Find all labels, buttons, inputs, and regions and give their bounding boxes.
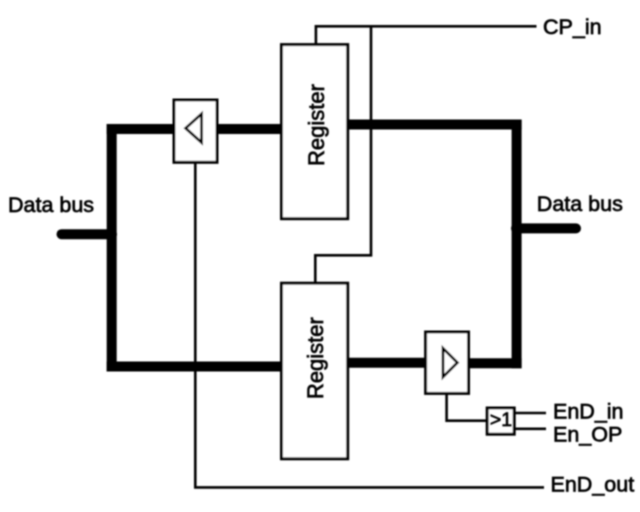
svg-text:En_OP: En_OP bbox=[553, 423, 622, 447]
wire: data bus left stub (thick) bbox=[62, 229, 113, 239]
OR gate U3 box bbox=[487, 408, 514, 434]
wire: data bus right stub (thick) bbox=[516, 223, 576, 233]
buffer G2 box (tri-state driver, output side) bbox=[426, 332, 469, 393]
wire: EnD_in input to OR gate bbox=[515, 412, 547, 415]
buffer G1 box (tri-state driver, input side) bbox=[174, 100, 217, 162]
wire: OR gate output to buffer G2 control bbox=[447, 394, 487, 421]
svg-text:Data bus: Data bus bbox=[537, 192, 623, 216]
wire: data bus bottom, bottom register to buffer G2 (thick) bbox=[346, 358, 428, 368]
wire: En_OP input to OR gate bbox=[515, 427, 547, 430]
svg-text:>1: >1 bbox=[490, 409, 512, 431]
svg-text:EnD_in: EnD_in bbox=[553, 399, 624, 423]
buffer G2 triangle (points right) bbox=[443, 348, 457, 377]
svg-text:CP_in: CP_in bbox=[543, 15, 602, 39]
svg-text:Register: Register bbox=[304, 84, 329, 166]
wire: CP_in to top register clock input bbox=[316, 26, 537, 45]
wire: data bus left vertical (thick) bbox=[107, 124, 117, 372]
svg-text:Register: Register bbox=[303, 317, 328, 399]
wire: data bus bottom, left segment (thick) bbox=[107, 362, 284, 372]
wire: data bus top, top register to right side (thick) bbox=[346, 120, 522, 130]
wire: CP_in branch to bottom register clock input bbox=[315, 25, 371, 283]
buffer G1 triangle (points left) bbox=[186, 114, 202, 143]
svg-text:Data bus: Data bus bbox=[8, 193, 94, 217]
wire: data bus top, left of buffer G1 (thick) bbox=[107, 124, 176, 134]
wire: data bus right vertical (thick) bbox=[512, 120, 522, 368]
register U2 box (bottom) bbox=[282, 283, 348, 459]
svg-text:EnD_out: EnD_out bbox=[551, 473, 635, 497]
wire: data bus bottom, buffer G2 to right corner (thick) bbox=[466, 358, 522, 368]
register U1 box (top) bbox=[282, 45, 348, 219]
wire: buffer G1 control to EnD_out bbox=[195, 162, 544, 488]
wire: data bus top, buffer G1 to top register (thick) bbox=[215, 124, 284, 134]
